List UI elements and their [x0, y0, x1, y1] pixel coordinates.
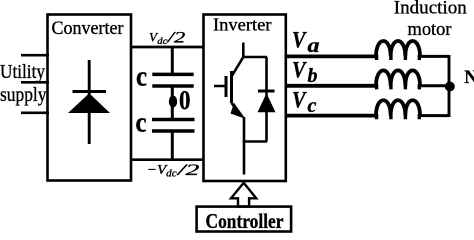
- svg-text:supply: supply: [0, 84, 47, 106]
- svg-text:−V: −V: [147, 163, 168, 178]
- wire: phase A to neutral bus: [420, 55, 449, 58]
- inductor Lb (induction motor phase b): [376, 70, 420, 85]
- svg-text:dc: dc: [166, 169, 177, 180]
- control arrow (Controller to Inverter): [231, 183, 256, 207]
- label: Va: [292, 28, 320, 57]
- wire: freewheel diode branch: [265, 57, 268, 142]
- svg-text:Utility: Utility: [0, 61, 45, 83]
- diode D1 (converter rectifier): [68, 60, 110, 144]
- wire: phase C line: [286, 114, 376, 118]
- block: Inverter: [204, 15, 286, 182]
- svg-text:Converter: Converter: [52, 18, 125, 39]
- svg-text:c: c: [136, 60, 147, 92]
- node N (neutral): [445, 82, 455, 92]
- label: Utility supply: [0, 61, 47, 106]
- svg-text:b: b: [308, 65, 318, 87]
- svg-text:/2: /2: [176, 162, 199, 179]
- svg-text:Inverter: Inverter: [213, 15, 272, 35]
- wire: utility phase 2: [21, 81, 49, 84]
- label: Vb: [292, 58, 318, 88]
- capacitor C2 (lower): [152, 120, 195, 132]
- wire: -Vdc/2 rail: [131, 158, 204, 161]
- inductor La loop dips: [377, 55, 420, 60]
- wire: DC-link string lower segment: [171, 131, 174, 160]
- wire: phase B line: [286, 84, 376, 88]
- label: Induction motor: [394, 0, 468, 40]
- inductor La (induction motor phase a): [376, 41, 420, 56]
- wire: utility phase 1: [21, 54, 49, 57]
- wire: DC-link string middle segment: [171, 86, 174, 120]
- wire: top junction to freewheel diode: [242, 56, 267, 59]
- svg-text:c: c: [308, 95, 317, 117]
- block: Converter: [48, 15, 132, 181]
- inductor Lc (induction motor phase c): [376, 100, 420, 115]
- wire: neutral bus: [448, 55, 451, 117]
- svg-text:V: V: [292, 88, 307, 114]
- svg-text:Controller: Controller: [206, 209, 284, 233]
- label: Vc: [292, 88, 317, 118]
- svg-text:motor: motor: [408, 19, 453, 40]
- svg-text:0: 0: [179, 85, 191, 115]
- diode D2 (freewheel): [258, 91, 276, 112]
- wire: +Vdc/2 rail: [131, 46, 204, 49]
- label: -Vdc/2: [147, 162, 200, 180]
- svg-text:Induction: Induction: [394, 0, 468, 19]
- wire: inverter output stub: [243, 142, 246, 175]
- svg-text:/2: /2: [166, 30, 185, 47]
- wire: Q1 collector stub: [242, 43, 245, 59]
- wire: phase A line: [286, 55, 376, 59]
- wire: utility phase 3: [21, 111, 49, 114]
- inductor Lb loop dips: [377, 84, 420, 89]
- wire: phase C to neutral bus: [420, 114, 449, 117]
- wire: DC-link string upper segment: [171, 47, 174, 74]
- svg-text:V: V: [292, 58, 307, 84]
- svg-text:a: a: [308, 35, 320, 57]
- label: Vdc/2: [149, 30, 186, 48]
- block: Controller: [197, 207, 292, 232]
- svg-text:N: N: [464, 68, 474, 88]
- node 0 (DC midpoint): [169, 96, 177, 108]
- wire: bottom junction: [243, 140, 267, 143]
- wire: Q1 emitter to bottom junction: [243, 117, 246, 143]
- svg-text:V: V: [292, 28, 307, 54]
- svg-text:c: c: [136, 107, 147, 139]
- svg-text:dc: dc: [157, 37, 168, 47]
- capacitor C1 (upper): [152, 74, 193, 86]
- transistor Q1 (IGBT): [214, 57, 245, 119]
- wire: phase B to node N: [420, 84, 449, 87]
- inductor Lc loop dips: [377, 114, 420, 119]
